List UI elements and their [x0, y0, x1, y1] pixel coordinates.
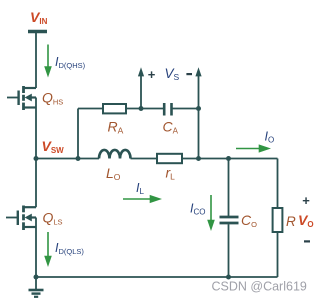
svg-text:+: +: [148, 67, 156, 82]
svg-text:CSDN @Carl619: CSDN @Carl619: [212, 279, 307, 293]
svg-text:+: +: [302, 193, 310, 208]
svg-text:R: R: [286, 214, 296, 229]
